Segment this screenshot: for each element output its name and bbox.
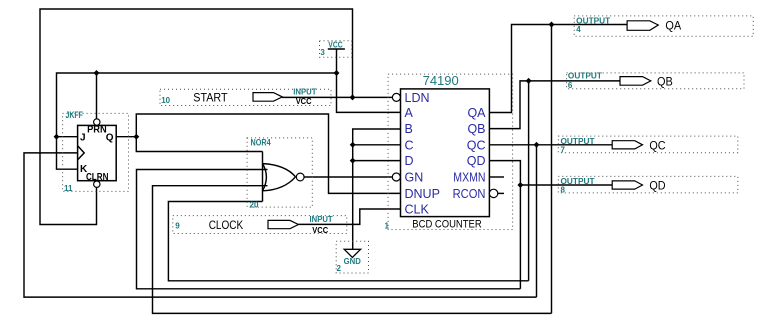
svg-text:3: 3 [320,48,325,57]
wire: QA pin up and right to port [490,25,628,113]
wire: D pin to GND vertical [353,160,401,162]
wire: NOR4 output to GN pin [304,176,392,178]
output port QB pentagon [620,77,651,86]
svg-text:QC: QC [467,138,486,152]
flip-flop JKFF PRN bubble [94,119,100,125]
svg-text:RCON: RCON [453,187,486,201]
nor gate NOR4 body [263,164,296,191]
svg-text:1: 1 [385,222,390,231]
output port QA pentagon [627,21,658,31]
wire: MXMN stub [490,176,505,178]
output port QB selection box [567,73,744,89]
svg-text:BCD COUNTER: BCD COUNTER [412,218,481,230]
wire: RCON stub [498,192,504,194]
output port QC selection box [558,136,738,153]
wire: QD feedback bottom to NOR4 input 2 [137,170,521,289]
wire: QC pin to output port [490,144,613,146]
nor gate NOR4 output bubble [296,173,304,181]
svg-text:20: 20 [250,200,259,209]
svg-text:CLOCK: CLOCK [209,218,244,232]
svg-text:C: C [405,138,414,152]
svg-text:NOR4: NOR4 [251,137,271,147]
junction: J wire on VCC vertical [54,134,60,140]
wire: VCC to A pin of 74190 [337,73,401,112]
output port QD selection box [558,176,738,193]
svg-text:JKFF: JKFF [66,110,84,120]
junction: D wire on GND vertical [350,158,356,164]
wire: Q net to DNUP pin [136,114,400,193]
wire: CLOCK port to CLK pin [298,209,400,224]
wire: QB pin up to port level [490,81,621,129]
counter 74190 selection box [388,74,512,229]
ground GND selection box [336,241,368,273]
wire: VCC stub [336,49,338,73]
wire: top frame from START net to CLRN (left loop) [40,9,353,225]
svg-text:A: A [405,106,414,120]
wire: QD to output port [520,184,612,186]
svg-text:VCC: VCC [296,97,312,106]
input port CLOCK pentagon [268,220,298,228]
junction: QD port branch [517,182,523,188]
junction: QB net branch [526,78,532,84]
svg-text:OUTPUT: OUTPUT [561,137,595,146]
wire: QB feedback bottom to NOR4 input 4 [168,202,528,281]
svg-text:10: 10 [161,96,170,105]
output port QD pentagon [612,181,642,189]
svg-text:Q: Q [106,132,114,143]
output port QA selection box [574,16,753,36]
wire: PRN pullup stub [96,73,98,119]
wire: B pin to GND vertical [353,129,401,249]
output port QC pentagon [612,141,642,149]
wire: START port to LDN pin [282,96,392,98]
flip-flop JKFF CLRN bubble [94,181,100,187]
wire: QB feedback down [528,81,530,281]
nor gate NOR4 input bar [262,152,264,202]
svg-text:QD: QD [649,179,666,193]
wire: VCC rail to JKFF [57,73,337,169]
svg-text:CLRN: CLRN [86,172,109,183]
wire: C pin to GND vertical [353,144,401,146]
svg-text:CLK: CLK [405,203,430,217]
svg-text:B: B [405,122,413,136]
ground GND symbol triangle [344,249,360,257]
wire: J pin to VCC rail [57,136,78,138]
wire: QA feedback bottom to NOR4 input 3 [153,186,552,314]
junction: QC net branch [534,142,540,148]
svg-text:J: J [80,132,86,143]
wire: Q net to NOR4 input 1 [136,137,262,152]
svg-text:DNUP: DNUP [405,187,440,201]
svg-text:QB: QB [467,122,485,136]
svg-text:D: D [405,154,414,168]
input port START pentagon [253,93,282,102]
svg-text:74190: 74190 [423,73,459,88]
wire: QC feedback down [536,145,538,297]
power VCC selection box [320,41,352,57]
svg-text:7: 7 [561,146,566,155]
junction: QA net branch [549,22,555,28]
junction: START net at frame [350,94,356,100]
power VCC symbol bar [328,48,345,50]
svg-text:QC: QC [649,138,666,152]
svg-text:VCC: VCC [328,41,342,50]
input port START selection box [160,89,331,105]
svg-text:MXMN: MXMN [453,170,485,184]
svg-text:GN: GN [405,170,424,184]
junction: VCC stub / A wire on rail [334,70,340,76]
junction: C wire on GND vertical [350,142,356,148]
flip-flop JKFF clock triangle [78,146,85,160]
svg-text:4: 4 [576,25,581,34]
svg-text:OUTPUT: OUTPUT [561,177,595,186]
svg-text:QD: QD [467,154,486,168]
svg-text:START: START [193,91,228,105]
junction: PRN stub on VCC rail [94,70,100,76]
counter 74190 RCON bubble [489,189,497,197]
nor gate NOR4 selection box [247,138,312,207]
svg-text:QB: QB [657,74,673,88]
counter 74190 body [401,89,490,217]
input port CLOCK selection box [173,216,347,234]
svg-text:GND: GND [344,257,361,266]
wire: QD pin feedback down [490,161,521,289]
svg-text:QA: QA [665,19,681,33]
junction: Q net branch [133,134,139,140]
svg-text:9: 9 [175,222,180,231]
svg-text:OUTPUT: OUTPUT [568,71,602,80]
wire: QA feedback down [551,25,553,314]
flip-flop JKFF selection box [63,113,129,191]
svg-text:LDN: LDN [405,91,430,105]
counter 74190 LDN bubble [392,93,400,101]
counter 74190 GN bubble [392,173,400,181]
wire: Q output of JKFF [116,136,136,138]
svg-text:OUTPUT: OUTPUT [576,16,610,25]
svg-text:PRN: PRN [87,125,107,136]
svg-text:2: 2 [337,264,342,273]
wire: QC feedback bottom to JKFF clock [24,153,537,297]
svg-text:QA: QA [467,106,486,120]
svg-text:INPUT: INPUT [310,215,333,224]
flip-flop JKFF body [78,125,117,180]
